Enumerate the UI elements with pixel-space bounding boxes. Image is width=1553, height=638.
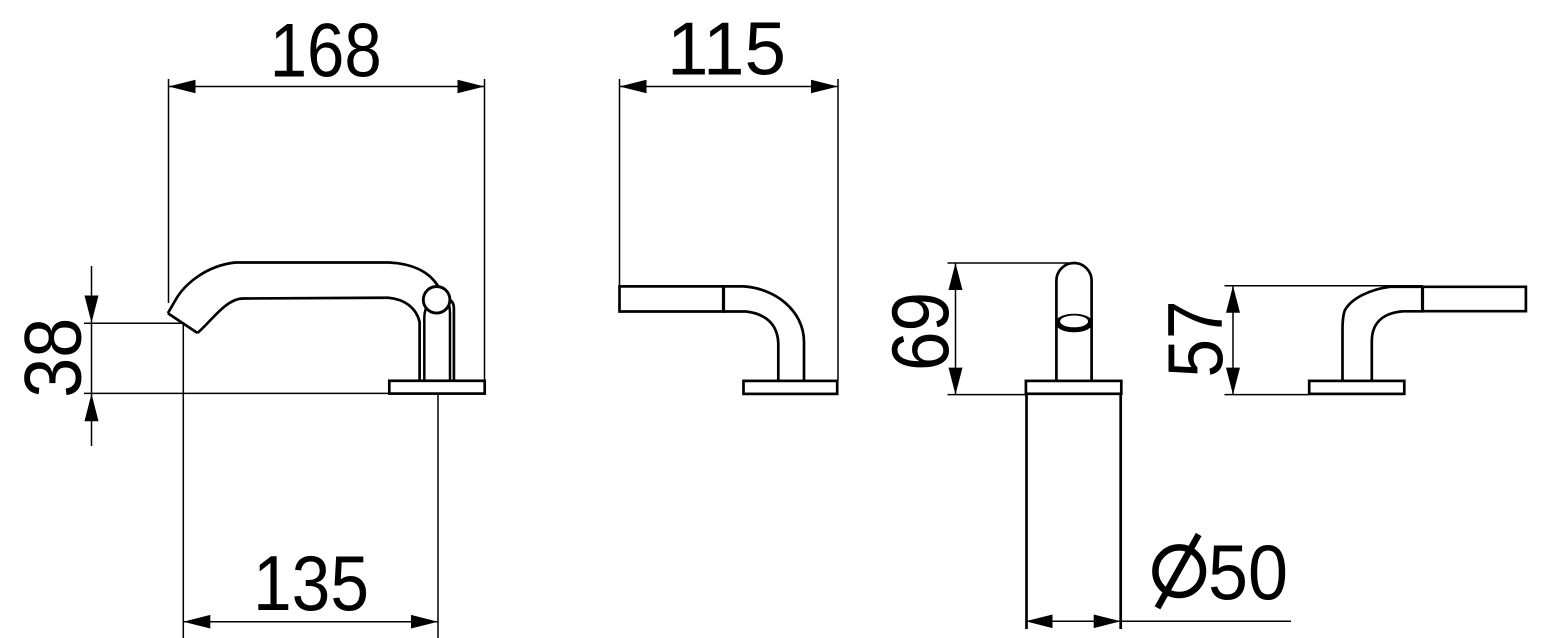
- dimension 38 bottom arrow: [85, 394, 99, 421]
- extension line 69 top: [948, 262, 1069, 264]
- svg-text:38: 38: [9, 318, 99, 398]
- handle body cylinder left edge: [1025, 394, 1028, 629]
- handle ring inner: [1060, 316, 1088, 328]
- handle ring outer: [1055, 314, 1093, 333]
- dimension 168 left arrow: [169, 80, 196, 94]
- lever bar divider: [1421, 286, 1424, 313]
- extension line 168 right: [484, 79, 486, 380]
- dimension 69 text (rotated): [876, 292, 966, 371]
- dimension 57 top arrow: [1226, 286, 1240, 313]
- lever bend inner edge: [1372, 311, 1423, 381]
- spout outer outline: [168, 263, 438, 314]
- spout plan flange: [744, 381, 838, 394]
- dimension 135 text: [253, 539, 369, 627]
- dimension 115 text: [667, 7, 786, 91]
- reference line 38 top: [84, 322, 184, 324]
- dimension 115 line: [620, 86, 839, 88]
- dimension D50 text: [1155, 535, 1203, 608]
- extension line 135 left: [182, 324, 184, 638]
- svg-text:57: 57: [1151, 301, 1239, 378]
- svg-text:135: 135: [253, 539, 369, 627]
- spout flange: [389, 381, 484, 394]
- spout column right inner line: [448, 306, 451, 381]
- spout elbow circle: [423, 287, 450, 314]
- dimension 57 text (rotated): [1151, 301, 1239, 378]
- dimension 38 top arrow: [85, 296, 99, 323]
- dimension 38 text (rotated): [9, 318, 99, 398]
- extension line 135 right: [437, 395, 439, 638]
- handle stem: [1056, 263, 1091, 381]
- spout bend inner edge: [724, 312, 779, 381]
- handle flange: [1026, 381, 1121, 394]
- dimension 69 line: [955, 263, 957, 395]
- reference line 38 bottom (deck line): [84, 392, 389, 394]
- svg-text:115: 115: [667, 7, 786, 91]
- dimension 69 bottom arrow: [949, 368, 963, 395]
- extension line 115 right: [837, 79, 839, 380]
- spout column right outer line: [450, 300, 454, 381]
- svg-text:168: 168: [270, 9, 382, 94]
- dimension 135 right arrow: [411, 615, 438, 629]
- lever flange: [1309, 381, 1404, 394]
- spout inner outline: [198, 298, 420, 381]
- extension line 57 top: [1225, 285, 1424, 287]
- dimension 69 top arrow: [949, 263, 963, 290]
- spout nose divider: [722, 285, 725, 313]
- spout bend outer edge: [724, 286, 805, 380]
- dimension 57 bottom arrow: [1226, 368, 1240, 395]
- dimension 115 right arrow: [811, 80, 838, 94]
- extension line 115 left: [619, 79, 621, 285]
- dimension 135 left arrow: [183, 615, 210, 629]
- lever bend outer edge: [1343, 287, 1423, 381]
- dimension D50 right arrow: [1094, 615, 1121, 629]
- svg-text:50: 50: [1208, 528, 1288, 616]
- dimension 168 right arrow: [458, 80, 485, 94]
- dimension 115 left arrow: [620, 80, 647, 94]
- extension line 168 left: [168, 79, 170, 303]
- dimension D50 line: [1026, 620, 1292, 622]
- dimension D50 left arrow: [1026, 615, 1053, 629]
- lever bar: [1423, 287, 1526, 311]
- spout nose rectangle: [620, 286, 724, 311]
- handle body cylinder right edge: [1119, 394, 1122, 629]
- dimension 135 line: [183, 621, 438, 623]
- dimension 168 text: [270, 9, 382, 94]
- dimension 168 line: [169, 86, 485, 88]
- spout tip cut: [168, 313, 198, 333]
- svg-text:69: 69: [876, 292, 966, 371]
- extension line 69 bottom: [948, 394, 1026, 396]
- extension line 57 bottom: [1225, 394, 1310, 396]
- dimension 57 line: [1232, 286, 1234, 395]
- spout column left inner line: [424, 308, 426, 381]
- dimension D50 digits: [1208, 528, 1288, 616]
- dimension 38 line: [91, 266, 93, 446]
